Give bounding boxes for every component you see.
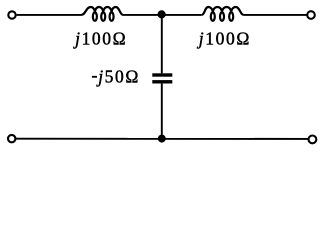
terminal circle bottom-right	[309, 136, 317, 144]
svg-text:j100Ω: j100Ω	[197, 28, 251, 48]
wire top-left segment	[17, 14, 82, 16]
wire bottom rail	[16, 138, 309, 140]
junction dot bottom node	[158, 135, 166, 143]
wire top-middle segment	[123, 14, 202, 16]
capacitor C1 bottom plate	[152, 80, 172, 83]
wire vertical upper (node to capacitor)	[161, 15, 163, 73]
inductor L1	[82, 7, 124, 21]
svg-text:j50Ω: j50Ω	[96, 67, 140, 87]
wire vertical lower (capacitor to bottom rail)	[161, 84, 163, 139]
terminal circle bottom-left	[8, 135, 15, 142]
junction dot top node	[158, 10, 166, 18]
terminal circle top-right	[307, 11, 315, 19]
inductor L2	[202, 7, 244, 21]
capacitor C1 top plate	[152, 73, 172, 76]
label minus sign of -j50	[92, 76, 97, 78]
svg-text:j100Ω: j100Ω	[73, 28, 127, 48]
wire top-right segment	[244, 14, 307, 16]
terminal circle top-left	[8, 11, 15, 18]
